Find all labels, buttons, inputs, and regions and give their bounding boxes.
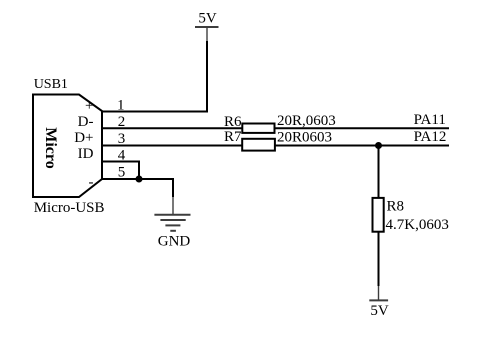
svg-text:ID: ID xyxy=(78,146,94,162)
svg-text:-: - xyxy=(89,175,94,191)
svg-text:20R,0603: 20R,0603 xyxy=(277,113,336,129)
svg-text:1: 1 xyxy=(117,98,125,114)
svg-text:USB1: USB1 xyxy=(34,77,68,92)
svg-text:+: + xyxy=(85,98,93,114)
svg-text:20R0603: 20R0603 xyxy=(277,129,332,145)
svg-text:R8: R8 xyxy=(387,198,405,214)
svg-text:Micro-USB: Micro-USB xyxy=(34,200,105,216)
svg-text:3: 3 xyxy=(118,131,126,147)
svg-text:4.7K,0603: 4.7K,0603 xyxy=(386,217,449,233)
svg-text:PA12: PA12 xyxy=(414,129,447,145)
svg-text:PA11: PA11 xyxy=(414,112,446,128)
svg-text:2: 2 xyxy=(118,114,126,130)
svg-text:4: 4 xyxy=(118,148,126,164)
svg-text:D+: D+ xyxy=(74,130,93,146)
svg-text:R6: R6 xyxy=(224,114,242,130)
svg-text:5V: 5V xyxy=(370,303,389,319)
svg-text:5V: 5V xyxy=(198,11,217,27)
svg-text:D-: D- xyxy=(78,114,94,130)
svg-text:5: 5 xyxy=(118,165,126,181)
svg-text:Micro: Micro xyxy=(42,127,59,168)
svg-text:R7: R7 xyxy=(224,129,242,145)
svg-text:GND: GND xyxy=(158,233,191,249)
